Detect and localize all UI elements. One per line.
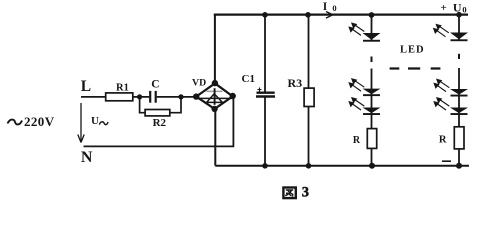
svg-text:220V: 220V: [24, 114, 55, 129]
svg-text:R: R: [439, 135, 447, 146]
svg-text:LED: LED: [400, 45, 425, 56]
svg-text:L: L: [81, 78, 91, 95]
svg-text:N: N: [81, 149, 93, 166]
svg-text:C: C: [151, 79, 159, 91]
svg-text:R3: R3: [288, 76, 303, 90]
svg-text:VD: VD: [192, 78, 206, 89]
svg-text:I: I: [323, 1, 328, 13]
svg-text:0: 0: [462, 5, 466, 15]
svg-text:R2: R2: [153, 117, 167, 129]
svg-text:R1: R1: [116, 82, 129, 93]
svg-text:+: +: [441, 2, 447, 14]
svg-text:U: U: [91, 115, 99, 127]
svg-text:3: 3: [302, 184, 309, 200]
svg-text:0: 0: [332, 3, 336, 13]
svg-text:R: R: [353, 135, 361, 146]
svg-text:C1: C1: [242, 73, 255, 85]
svg-text:U: U: [453, 1, 462, 15]
